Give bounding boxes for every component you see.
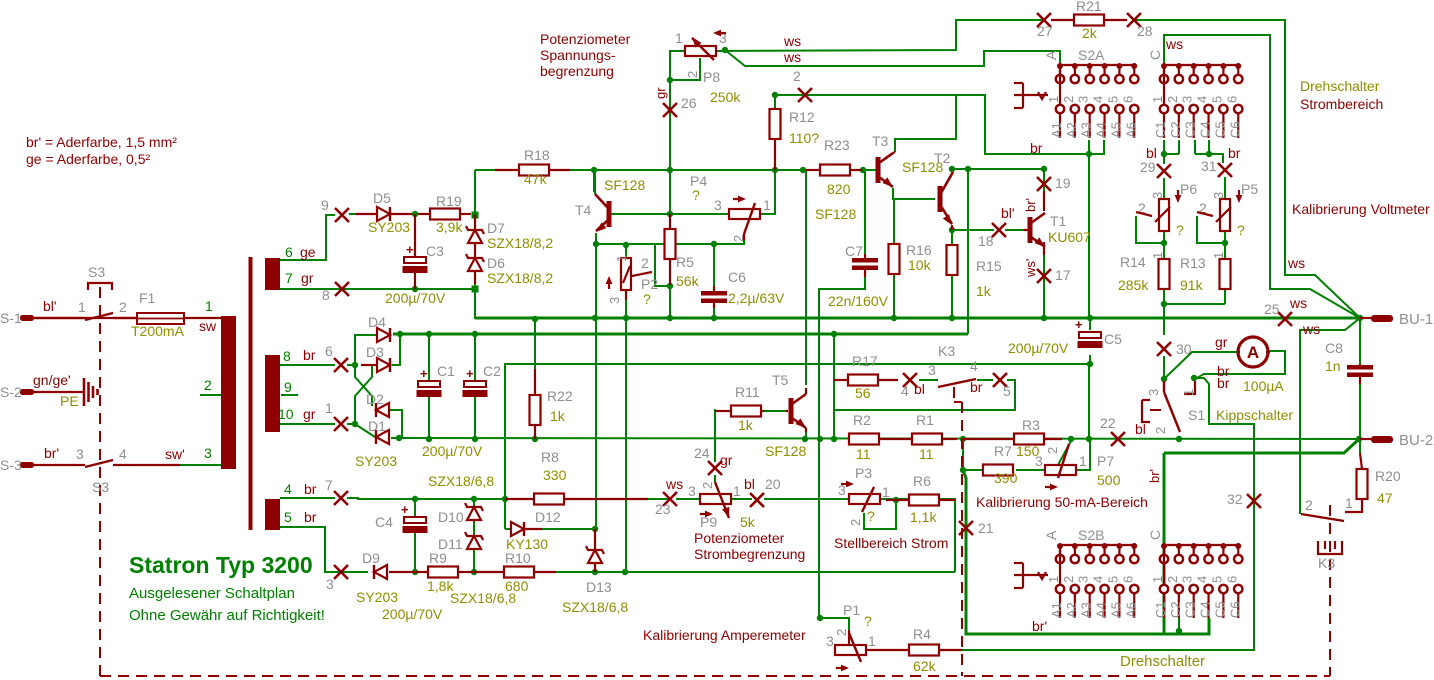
svg-text:C2: C2 <box>1168 121 1183 138</box>
svg-text:285k: 285k <box>1118 277 1149 293</box>
svg-text:11: 11 <box>856 446 871 462</box>
svg-text:56: 56 <box>855 385 871 401</box>
svg-text:R17: R17 <box>852 353 878 369</box>
svg-text:D7: D7 <box>487 220 505 236</box>
svg-text:Kalibrierung Voltmeter: Kalibrierung Voltmeter <box>1292 201 1430 217</box>
svg-text:R12: R12 <box>789 109 815 125</box>
svg-text:T200mA: T200mA <box>131 323 185 339</box>
svg-text:D12: D12 <box>535 509 561 525</box>
svg-text:?: ? <box>1237 222 1245 238</box>
svg-text:R5: R5 <box>676 254 694 270</box>
svg-text:62k: 62k <box>913 658 937 674</box>
svg-text:R8: R8 <box>541 449 559 465</box>
svg-text:ws: ws <box>665 476 683 492</box>
svg-text:R10: R10 <box>505 550 531 566</box>
svg-text:A3: A3 <box>1079 602 1094 618</box>
svg-text:2: 2 <box>834 629 849 636</box>
svg-text:bl': bl' <box>1001 205 1015 221</box>
svg-text:Statron Typ 3200: Statron Typ 3200 <box>129 552 313 578</box>
svg-text:bl: bl <box>1146 145 1157 161</box>
svg-text:PE: PE <box>60 393 79 409</box>
svg-text:6: 6 <box>325 343 333 359</box>
svg-text:8: 8 <box>322 287 330 303</box>
svg-text:3,9k: 3,9k <box>436 219 463 235</box>
svg-text:R4: R4 <box>913 626 931 642</box>
svg-text:K3: K3 <box>1318 555 1335 571</box>
svg-text:br': br' <box>1147 469 1162 483</box>
svg-text:1: 1 <box>325 400 333 416</box>
svg-text:C: C <box>1147 50 1163 60</box>
svg-text:+: + <box>1075 317 1083 332</box>
svg-text:1: 1 <box>614 255 629 262</box>
svg-text:C6: C6 <box>1227 601 1242 618</box>
svg-text:2: 2 <box>1165 576 1180 583</box>
svg-text:100µA: 100µA <box>1243 378 1284 394</box>
svg-text:110?: 110? <box>789 130 819 146</box>
svg-text:T1: T1 <box>1050 213 1067 229</box>
svg-text:T4: T4 <box>575 202 592 218</box>
svg-text:C2: C2 <box>1168 601 1183 618</box>
svg-text:26: 26 <box>681 95 697 111</box>
svg-text:ws: ws <box>1165 36 1183 52</box>
svg-text:S2A: S2A <box>1078 47 1105 63</box>
svg-text:4: 4 <box>1091 576 1106 583</box>
svg-text:P1: P1 <box>843 602 860 618</box>
svg-text:2: 2 <box>1165 96 1180 103</box>
svg-text:ws: ws <box>1302 321 1320 337</box>
svg-text:22: 22 <box>1100 415 1116 431</box>
svg-text:2,2µ/63V: 2,2µ/63V <box>728 290 785 306</box>
svg-text:A4: A4 <box>1094 122 1109 138</box>
svg-text:P5: P5 <box>1241 181 1258 197</box>
svg-text:30: 30 <box>1176 341 1192 357</box>
svg-text:1: 1 <box>675 30 683 46</box>
svg-text:A: A <box>1043 530 1059 540</box>
svg-text:br: br <box>304 481 317 497</box>
svg-text:SF128: SF128 <box>815 206 856 222</box>
svg-text:+: + <box>406 242 414 257</box>
svg-text:Spannungs-: Spannungs- <box>540 47 616 63</box>
svg-text:S2B: S2B <box>1078 527 1104 543</box>
svg-text:br: br <box>1228 145 1241 161</box>
svg-text:1: 1 <box>1345 495 1353 511</box>
svg-text:5: 5 <box>284 509 292 525</box>
svg-text:?: ? <box>1176 222 1184 238</box>
svg-text:A6: A6 <box>1123 122 1138 138</box>
svg-text:3: 3 <box>1076 576 1091 583</box>
svg-text:P8: P8 <box>703 69 720 85</box>
svg-text:gr: gr <box>653 87 668 99</box>
svg-text:2: 2 <box>641 255 649 271</box>
svg-text:SZX18/6,8: SZX18/6,8 <box>562 599 628 615</box>
svg-text:R23: R23 <box>824 137 850 153</box>
svg-text:+: + <box>401 502 409 517</box>
svg-text:10: 10 <box>278 406 294 422</box>
svg-text:R11: R11 <box>735 384 760 400</box>
svg-text:br: br <box>303 347 316 363</box>
svg-text:1: 1 <box>205 298 213 314</box>
svg-text:2: 2 <box>848 519 863 526</box>
svg-text:bl: bl <box>914 381 925 397</box>
svg-text:2k: 2k <box>1082 25 1098 41</box>
svg-text:A2: A2 <box>1064 602 1079 618</box>
svg-text:Potenziometer: Potenziometer <box>540 31 631 47</box>
svg-text:10k: 10k <box>908 257 932 273</box>
svg-text:br: br <box>304 509 317 525</box>
svg-text:5: 5 <box>1105 96 1120 103</box>
svg-text:bl: bl <box>1135 421 1146 437</box>
svg-text:Strombegrenzung: Strombegrenzung <box>694 546 805 562</box>
svg-text:2: 2 <box>700 482 715 489</box>
svg-text:R2: R2 <box>853 412 871 428</box>
svg-text:1: 1 <box>733 483 741 499</box>
svg-text:C5: C5 <box>1212 601 1227 618</box>
svg-text:9: 9 <box>321 197 329 213</box>
svg-text:200µ/70V: 200µ/70V <box>1008 340 1069 356</box>
svg-text:3: 3 <box>928 362 936 378</box>
svg-text:SY203: SY203 <box>356 589 398 605</box>
svg-text:25: 25 <box>1264 301 1280 317</box>
svg-text:A: A <box>1043 50 1059 60</box>
svg-text:17: 17 <box>1055 267 1071 283</box>
svg-text:A5: A5 <box>1108 122 1123 138</box>
svg-text:24: 24 <box>694 445 710 461</box>
svg-text:bl: bl <box>744 476 755 492</box>
svg-text:A1: A1 <box>1049 602 1064 618</box>
svg-text:Stellbereich Strom: Stellbereich Strom <box>834 535 948 551</box>
svg-text:D4: D4 <box>368 314 386 330</box>
svg-text:+: + <box>466 366 474 381</box>
svg-text:gr: gr <box>1215 334 1228 350</box>
svg-text:390: 390 <box>994 470 1018 486</box>
svg-text:1,1k: 1,1k <box>910 509 937 525</box>
svg-text:br': br' <box>1023 198 1038 212</box>
svg-text:6: 6 <box>1120 576 1135 583</box>
svg-text:D1: D1 <box>368 418 386 434</box>
svg-text:ws': ws' <box>1023 259 1038 278</box>
svg-text:2: 2 <box>1061 96 1076 103</box>
svg-text:29: 29 <box>1140 159 1156 175</box>
svg-text:Potenziometer: Potenziometer <box>694 530 785 546</box>
svg-text:4: 4 <box>901 383 909 399</box>
svg-text:27: 27 <box>1037 23 1053 39</box>
svg-text:A3: A3 <box>1079 122 1094 138</box>
svg-text:47k: 47k <box>524 171 548 187</box>
svg-text:Ausgelesener Schaltplan: Ausgelesener Schaltplan <box>129 585 295 602</box>
svg-text:C4: C4 <box>1198 121 1213 138</box>
svg-text:ge: ge <box>300 244 316 260</box>
svg-text:R14: R14 <box>1120 254 1146 270</box>
svg-text:begrenzung: begrenzung <box>540 63 614 79</box>
svg-text:gn/ge': gn/ge' <box>33 372 71 388</box>
svg-text:R13: R13 <box>1180 255 1206 271</box>
svg-text:R15: R15 <box>976 258 1002 274</box>
svg-text:2: 2 <box>119 299 127 315</box>
svg-text:2: 2 <box>793 68 801 84</box>
svg-text:3: 3 <box>1150 192 1165 199</box>
svg-text:gr: gr <box>301 270 314 286</box>
svg-text:3: 3 <box>607 297 622 304</box>
svg-text:3: 3 <box>1180 96 1195 103</box>
svg-text:S-1: S-1 <box>0 310 22 326</box>
svg-text:A6: A6 <box>1123 602 1138 618</box>
svg-text:47: 47 <box>1377 490 1393 506</box>
svg-text:7: 7 <box>285 270 293 286</box>
svg-text:R9: R9 <box>429 550 447 566</box>
svg-text:4: 4 <box>284 481 292 497</box>
svg-text:8: 8 <box>283 348 291 364</box>
svg-text:5: 5 <box>1003 383 1011 399</box>
svg-text:R3: R3 <box>1022 417 1040 433</box>
svg-text:sw': sw' <box>165 446 185 462</box>
svg-text:3: 3 <box>326 576 334 592</box>
svg-text:A5: A5 <box>1108 602 1123 618</box>
svg-text:1k: 1k <box>550 408 566 424</box>
svg-text:C1: C1 <box>437 363 455 379</box>
svg-text:ws: ws <box>1287 255 1305 271</box>
svg-text:C5: C5 <box>1212 121 1227 138</box>
svg-text:SZX18/8,2: SZX18/8,2 <box>487 235 553 251</box>
svg-text:C4: C4 <box>375 514 393 530</box>
svg-text:P2: P2 <box>641 276 658 292</box>
svg-text:?: ? <box>643 291 651 307</box>
svg-text:Ohne Gewähr auf Richtigkeit!: Ohne Gewähr auf Richtigkeit! <box>129 607 325 624</box>
svg-text:C3: C3 <box>426 243 444 259</box>
svg-text:18: 18 <box>978 233 994 249</box>
svg-text:R7: R7 <box>994 443 1012 459</box>
svg-text:C1: C1 <box>1153 121 1168 138</box>
svg-text:56k: 56k <box>676 273 700 289</box>
svg-text:C2: C2 <box>483 363 501 379</box>
svg-text:4: 4 <box>119 446 127 462</box>
svg-text:K3: K3 <box>938 343 955 359</box>
svg-text:2: 2 <box>1153 427 1168 434</box>
svg-text:gr: gr <box>720 452 733 468</box>
svg-text:3: 3 <box>1035 453 1043 469</box>
svg-text:200µ/70V: 200µ/70V <box>385 290 446 306</box>
svg-text:1n: 1n <box>1325 358 1341 374</box>
svg-text:ge = Aderfarbe, 0,5²: ge = Aderfarbe, 0,5² <box>26 151 150 167</box>
svg-text:R16: R16 <box>906 242 932 258</box>
svg-text:1: 1 <box>1079 453 1087 469</box>
svg-text:SF128: SF128 <box>604 177 645 193</box>
svg-text:3: 3 <box>826 633 834 649</box>
svg-text:5: 5 <box>1105 576 1120 583</box>
svg-text:C3: C3 <box>1183 121 1198 138</box>
svg-text:Kalibrierung Amperemeter: Kalibrierung Amperemeter <box>643 627 806 643</box>
svg-text:D13: D13 <box>586 579 612 595</box>
svg-text:S1: S1 <box>1188 407 1205 423</box>
svg-text:R18: R18 <box>524 147 550 163</box>
svg-text:KU607: KU607 <box>1048 229 1091 245</box>
svg-text:3: 3 <box>76 446 84 462</box>
svg-text:1: 1 <box>882 484 890 500</box>
svg-text:3: 3 <box>204 445 212 461</box>
svg-text:3: 3 <box>688 483 696 499</box>
svg-text:SF128: SF128 <box>765 443 806 459</box>
svg-text:D11: D11 <box>438 536 463 552</box>
svg-text:5: 5 <box>1209 96 1224 103</box>
svg-text:C: C <box>1147 530 1163 540</box>
svg-text:A: A <box>1247 343 1259 362</box>
svg-text:KY130: KY130 <box>506 536 548 552</box>
svg-text:4: 4 <box>1091 96 1106 103</box>
svg-text:2: 2 <box>1061 576 1076 583</box>
svg-text:R20: R20 <box>1375 468 1401 484</box>
svg-text:1: 1 <box>78 299 86 315</box>
svg-text:1: 1 <box>763 197 771 213</box>
svg-text:11: 11 <box>919 446 934 462</box>
svg-text:6: 6 <box>1224 96 1239 103</box>
svg-text:7: 7 <box>325 477 333 493</box>
svg-text:br: br <box>970 379 983 395</box>
svg-text:250k: 250k <box>710 89 741 105</box>
svg-text:P6: P6 <box>1180 181 1197 197</box>
svg-text:SZX18/6,8: SZX18/6,8 <box>450 590 516 606</box>
svg-text:1: 1 <box>1046 96 1061 103</box>
svg-text:330: 330 <box>543 467 567 483</box>
svg-text:1: 1 <box>1150 576 1165 583</box>
svg-text:D10: D10 <box>438 509 464 525</box>
svg-text:SF128: SF128 <box>902 159 943 175</box>
svg-text:820: 820 <box>827 181 851 197</box>
svg-text:1k: 1k <box>738 417 754 433</box>
svg-text:3: 3 <box>1211 192 1226 199</box>
svg-text:1k: 1k <box>976 283 992 299</box>
svg-text:S-3: S-3 <box>0 457 22 473</box>
svg-text:R22: R22 <box>547 388 573 404</box>
svg-text:R21: R21 <box>1076 0 1102 14</box>
svg-text:S-2: S-2 <box>0 384 22 400</box>
svg-text:19: 19 <box>1055 175 1071 191</box>
svg-text:31: 31 <box>1201 158 1217 174</box>
svg-text:sw: sw <box>199 318 217 334</box>
svg-text:1: 1 <box>1150 96 1165 103</box>
svg-text:23: 23 <box>655 501 671 517</box>
svg-text:bl': bl' <box>43 298 57 314</box>
svg-text:Strombereich: Strombereich <box>1300 96 1383 112</box>
svg-text:2: 2 <box>685 71 700 78</box>
svg-text:SZX18/6,8: SZX18/6,8 <box>428 473 494 489</box>
svg-text:SY203: SY203 <box>355 453 397 469</box>
svg-text:200µ/70V: 200µ/70V <box>422 443 483 459</box>
svg-text:C3: C3 <box>1183 601 1198 618</box>
svg-text:br: br <box>1217 375 1230 391</box>
svg-text:500: 500 <box>1097 472 1121 488</box>
svg-text:C6: C6 <box>728 269 746 285</box>
svg-text:32: 32 <box>1227 491 1243 507</box>
svg-text:br' = Aderfarbe, 1,5 mm²: br' = Aderfarbe, 1,5 mm² <box>26 134 177 150</box>
svg-text:6: 6 <box>1120 96 1135 103</box>
svg-text:C6: C6 <box>1227 121 1242 138</box>
svg-text:F1: F1 <box>139 290 156 306</box>
svg-text:1: 1 <box>868 633 876 649</box>
svg-text:200µ/70V: 200µ/70V <box>382 606 443 622</box>
svg-text:2: 2 <box>204 377 212 393</box>
svg-text:BU-2: BU-2 <box>1399 432 1433 449</box>
svg-text:Drehschalter: Drehschalter <box>1300 78 1380 94</box>
svg-text:5: 5 <box>1209 576 1224 583</box>
svg-text:20: 20 <box>765 476 781 492</box>
svg-text:A4: A4 <box>1094 602 1109 618</box>
svg-text:6: 6 <box>285 244 293 260</box>
svg-text:D9: D9 <box>362 550 380 566</box>
svg-text:T3: T3 <box>872 133 889 149</box>
svg-text:P9: P9 <box>700 514 717 530</box>
svg-text:A2: A2 <box>1064 122 1079 138</box>
svg-text:Drehschalter: Drehschalter <box>1120 653 1205 670</box>
svg-text:22n/160V: 22n/160V <box>828 293 889 309</box>
svg-text:D5: D5 <box>373 190 391 206</box>
svg-text:C4: C4 <box>1198 601 1213 618</box>
svg-text:ws: ws <box>783 33 801 49</box>
svg-text:C7: C7 <box>845 243 863 259</box>
svg-text:S3: S3 <box>92 479 109 495</box>
svg-text:br': br' <box>1032 618 1047 634</box>
svg-text:21: 21 <box>978 520 994 536</box>
svg-text:9: 9 <box>284 379 292 395</box>
svg-text:4: 4 <box>1195 96 1210 103</box>
svg-text:T5: T5 <box>772 372 789 388</box>
svg-text:5k: 5k <box>740 514 756 530</box>
svg-text:2: 2 <box>731 235 746 242</box>
svg-text:P3: P3 <box>855 465 872 481</box>
svg-text:ws: ws <box>1289 295 1307 311</box>
svg-text:+: + <box>420 366 428 381</box>
svg-text:3: 3 <box>1146 389 1161 396</box>
svg-text:gr: gr <box>303 406 316 422</box>
svg-text:BU-1: BU-1 <box>1399 311 1433 328</box>
svg-text:?: ? <box>864 613 872 629</box>
svg-text:R1: R1 <box>916 412 934 428</box>
svg-text:R19: R19 <box>436 193 462 209</box>
svg-text:4: 4 <box>1195 576 1210 583</box>
svg-text:?: ? <box>867 508 875 524</box>
svg-text:D3: D3 <box>366 344 384 360</box>
svg-text:D2: D2 <box>366 391 384 407</box>
svg-text:A1: A1 <box>1049 122 1064 138</box>
svg-text:3: 3 <box>714 197 722 213</box>
svg-text:1: 1 <box>1046 576 1061 583</box>
svg-text:C1: C1 <box>1153 601 1168 618</box>
svg-text:91k: 91k <box>1180 277 1204 293</box>
svg-text:S3: S3 <box>88 264 105 280</box>
svg-text:6: 6 <box>1224 576 1239 583</box>
svg-text:ws: ws <box>783 49 801 65</box>
svg-text:3: 3 <box>1180 576 1195 583</box>
svg-text:3: 3 <box>1076 96 1091 103</box>
svg-text:C5: C5 <box>1104 331 1122 347</box>
svg-text:2: 2 <box>1305 497 1313 513</box>
svg-text:P7: P7 <box>1097 453 1114 469</box>
svg-text:28: 28 <box>1137 23 1153 39</box>
svg-text:4: 4 <box>970 358 978 374</box>
svg-text:br: br <box>1030 140 1043 156</box>
svg-text:D6: D6 <box>487 255 505 271</box>
svg-text:SZX18/8,2: SZX18/8,2 <box>487 270 553 286</box>
svg-text:Kalibrierung 50-mA-Bereich: Kalibrierung 50-mA-Bereich <box>976 494 1148 510</box>
svg-text:R6: R6 <box>913 473 931 489</box>
svg-text:?: ? <box>692 187 700 203</box>
svg-text:1: 1 <box>1181 389 1196 396</box>
svg-text:SY203: SY203 <box>368 219 410 235</box>
svg-text:2: 2 <box>1045 447 1060 454</box>
svg-text:Kippschalter: Kippschalter <box>1216 407 1293 423</box>
svg-text:br': br' <box>44 445 59 461</box>
svg-text:C8: C8 <box>1325 340 1343 356</box>
